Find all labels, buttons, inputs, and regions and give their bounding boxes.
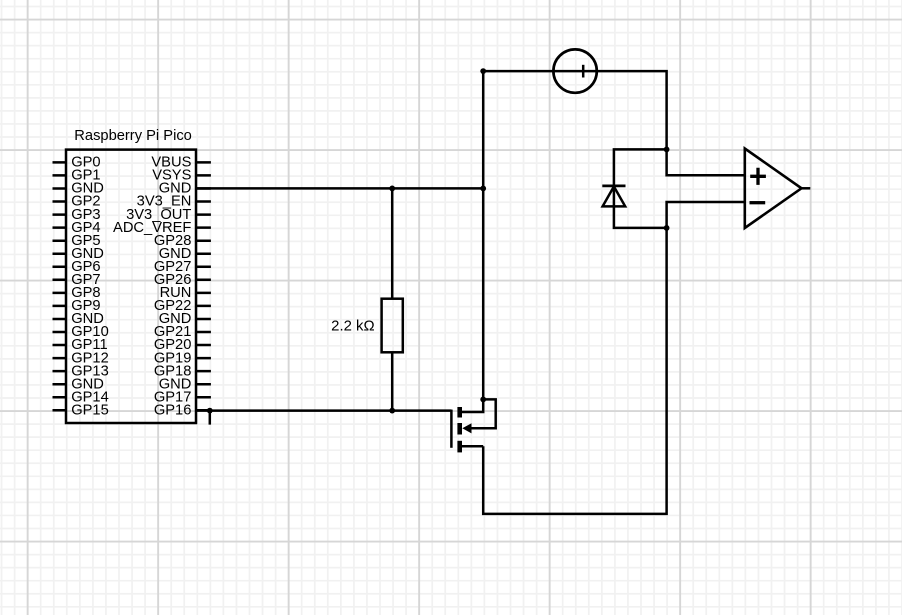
svg-text:GP16: GP16 [154, 403, 192, 419]
svg-text:2.2 kΩ: 2.2 kΩ [331, 318, 374, 334]
svg-text:GP15: GP15 [71, 403, 109, 419]
svg-text:Raspberry Pi Pico: Raspberry Pi Pico [74, 128, 192, 144]
